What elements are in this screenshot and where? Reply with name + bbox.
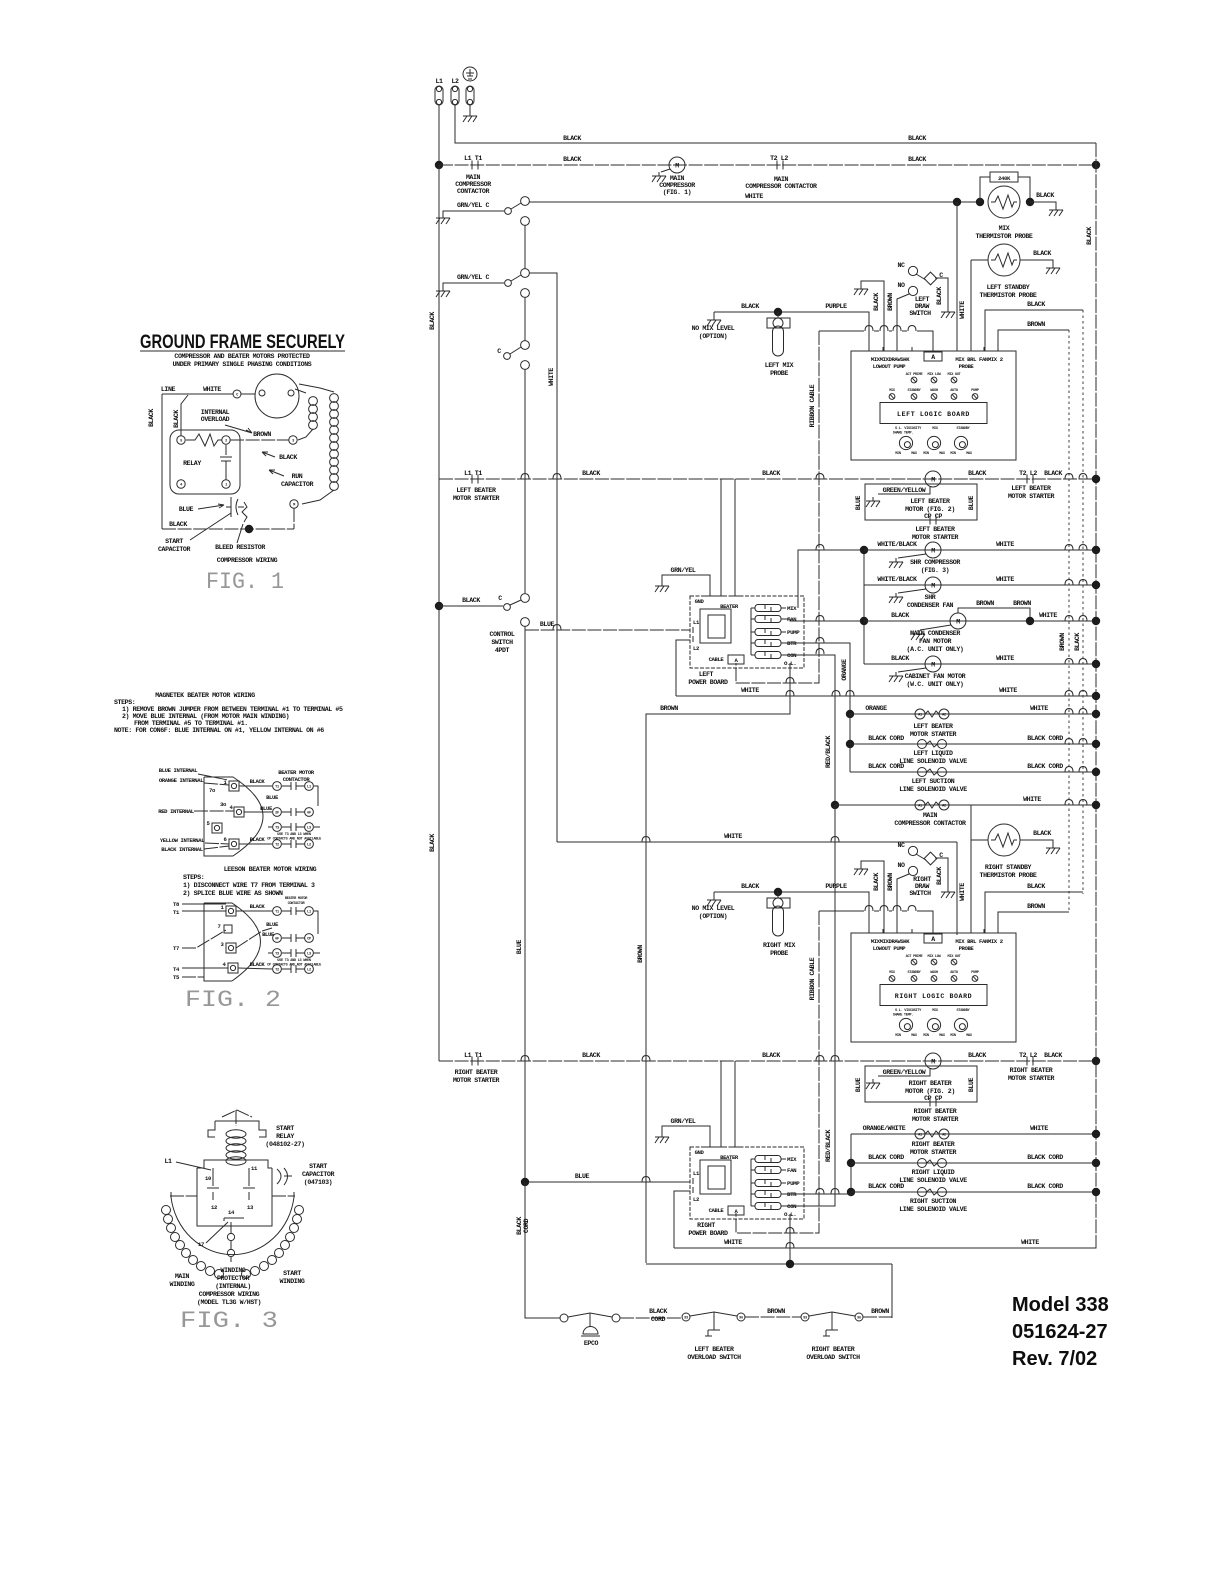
svg-text:BLACK: BLACK <box>762 470 780 477</box>
svg-text:LINE SOLENOID VALVE: LINE SOLENOID VALVE <box>899 786 967 793</box>
fuse CON <box>755 1203 781 1210</box>
contact L1 T1 <box>464 155 482 170</box>
motor main condenser fan row <box>864 600 1096 653</box>
svg-text:M: M <box>293 503 295 507</box>
svg-text:L1: L1 <box>435 78 443 85</box>
svg-text:CAPACITOR: CAPACITOR <box>281 481 313 488</box>
svg-text:BROWN: BROWN <box>871 1308 889 1315</box>
svg-text:BLACK: BLACK <box>762 1052 780 1059</box>
wire black cord vertical <box>849 714 851 772</box>
svg-text:BROWN: BROWN <box>1027 321 1045 328</box>
svg-text:ORANGE: ORANGE <box>841 659 848 681</box>
svg-text:L2: L2 <box>307 968 311 972</box>
svg-text:T5: T5 <box>173 974 180 981</box>
svg-text:1: 1 <box>225 483 227 487</box>
svg-text:BROWN: BROWN <box>1027 903 1045 910</box>
svg-text:LINE SOLENOID VALVE: LINE SOLENOID VALVE <box>899 758 967 765</box>
svg-text:T2: T2 <box>275 968 279 972</box>
svg-text:PROBE: PROBE <box>959 945 975 952</box>
svg-text:USE T3 AND L3 WHEN: USE T3 AND L3 WHEN <box>277 959 311 963</box>
wire blue vertical <box>516 626 525 1182</box>
svg-text:BROWN: BROWN <box>1059 633 1066 651</box>
svg-text:WHITE: WHITE <box>999 687 1017 694</box>
svg-text:CP CONTACTS ARE NOT AVAILABLE: CP CONTACTS ARE NOT AVAILABLE <box>267 964 322 968</box>
wire S up to line <box>173 395 188 436</box>
svg-text:1) DISCONNECT WIRE T7 FROM TE: 1) DISCONNECT WIRE T7 FROM TERMINAL 3 <box>183 882 315 889</box>
svg-text:THERMISTOR PROBE: THERMISTOR PROBE <box>980 872 1037 879</box>
svg-text:WHITE: WHITE <box>996 541 1014 548</box>
wire ribbon cable run <box>819 326 933 352</box>
svg-text:GND: GND <box>695 1149 705 1156</box>
label start capacitor <box>158 513 231 553</box>
svg-text:POWER BOARD: POWER BOARD <box>688 679 728 686</box>
svg-text:GREEN/YELLOW: GREEN/YELLOW <box>883 487 926 494</box>
svg-text:1) REMOVE BROWN JUMPER FROM B: 1) REMOVE BROWN JUMPER FROM BETWEEN TERM… <box>122 706 343 713</box>
wire drops row1061 to right power board beater terminals <box>721 1061 735 1147</box>
fuse MIX <box>755 605 781 612</box>
svg-text:MIN: MIN <box>950 1034 956 1038</box>
svg-text:LEFT LOGIC BOARD: LEFT LOGIC BOARD <box>897 411 970 418</box>
svg-text:BLACK: BLACK <box>908 135 926 142</box>
ground to right logic board black input <box>854 861 884 933</box>
svg-text:10: 10 <box>205 1175 212 1182</box>
svg-text:BLACK: BLACK <box>250 778 266 785</box>
svg-text:CONTACTOR: CONTACTOR <box>457 188 489 195</box>
svg-text:BLACK: BLACK <box>1033 830 1051 837</box>
svg-text:(INTERNAL): (INTERNAL) <box>215 1283 251 1290</box>
svg-text:MIN: MIN <box>923 452 929 456</box>
svg-text:BLACK: BLACK <box>429 312 436 330</box>
wire left beater motor starter row <box>439 470 1096 502</box>
svg-text:FAN: FAN <box>787 1167 797 1174</box>
svg-text:BLACK: BLACK <box>1074 633 1081 651</box>
svg-text:BLACK CORD: BLACK CORD <box>1027 1183 1063 1190</box>
wire epco junction row <box>646 1260 892 1318</box>
svg-text:STEPS:: STEPS: <box>114 699 135 706</box>
svg-text:STANDBY: STANDBY <box>957 1009 971 1013</box>
svg-text:BLACK: BLACK <box>873 293 880 311</box>
motor M main compressor <box>652 157 695 196</box>
wire blue row to right power board <box>525 1173 690 1182</box>
right power board <box>690 1143 804 1219</box>
svg-text:BLUE: BLUE <box>968 495 975 510</box>
svg-text:BLACK: BLACK <box>563 135 581 142</box>
svg-text:WASH: WASH <box>930 971 938 975</box>
svg-text:ORANGE/WHITE: ORANGE/WHITE <box>863 1125 906 1132</box>
svg-text:PROBE: PROBE <box>770 370 788 377</box>
svg-text:BLACK: BLACK <box>582 1052 600 1059</box>
svg-text:LOWOUT PUMP: LOWOUT PUMP <box>873 363 907 370</box>
svg-text:BLACK: BLACK <box>516 1217 523 1235</box>
solenoid right liquid row <box>851 1154 1096 1184</box>
svg-text:(MODEL TL3G W/HST): (MODEL TL3G W/HST) <box>197 1299 261 1306</box>
wire left black vertical <box>148 394 162 529</box>
svg-text:STANDBY: STANDBY <box>908 971 922 975</box>
svg-text:MAIN: MAIN <box>670 175 685 182</box>
label L1 <box>164 1158 211 1170</box>
svg-text:13: 13 <box>247 1204 254 1211</box>
svg-text:L1: L1 <box>693 619 700 626</box>
svg-text:L1: L1 <box>693 1170 700 1177</box>
svg-text:NC: NC <box>897 262 905 269</box>
svg-text:SWITCH: SWITCH <box>491 639 513 646</box>
svg-text:MOTOR STARTER: MOTOR STARTER <box>912 534 959 541</box>
svg-text:96: 96 <box>857 1316 861 1320</box>
svg-text:START: START <box>283 1270 301 1277</box>
svg-text:GRN/YEL: GRN/YEL <box>671 1118 696 1125</box>
wire BTR output to orange vertical <box>786 638 850 715</box>
wire OL right power board down <box>786 1214 794 1264</box>
svg-text:STANDBY: STANDBY <box>957 427 971 431</box>
svg-text:YELLOW INTERNAL: YELLOW INTERNAL <box>160 837 205 844</box>
svg-text:BLACK: BLACK <box>250 836 266 843</box>
svg-text:BLACK: BLACK <box>173 410 180 428</box>
label main compressor contactor right <box>745 176 817 190</box>
svg-text:RED INTERNAL: RED INTERNAL <box>158 808 195 815</box>
svg-text:CAPACITOR: CAPACITOR <box>158 546 190 553</box>
terminal 14 <box>224 1209 244 1221</box>
leeson heading <box>183 866 317 897</box>
svg-text:PUMP: PUMP <box>971 971 979 975</box>
blue splice <box>236 911 318 948</box>
svg-text:BLACK: BLACK <box>1044 1052 1062 1059</box>
svg-text:93: 93 <box>684 1316 688 1320</box>
svg-text:BROWN: BROWN <box>1013 600 1031 607</box>
svg-text:MAIN: MAIN <box>175 1273 190 1280</box>
left standby thermistor probe <box>971 244 1060 299</box>
svg-text:BLACK: BLACK <box>741 303 759 310</box>
svg-text:WHITE: WHITE <box>745 193 763 200</box>
svg-text:FIG. 3: FIG. 3 <box>180 1308 278 1334</box>
svg-text:BLACK: BLACK <box>169 521 187 528</box>
svg-text:WINDING: WINDING <box>280 1278 305 1285</box>
svg-text:BLACK: BLACK <box>1044 470 1062 477</box>
svg-text:WASH: WASH <box>930 389 938 393</box>
svg-text:(A.C. UNIT ONLY): (A.C. UNIT ONLY) <box>907 646 964 653</box>
contact row 4 black <box>239 836 313 848</box>
svg-text:LINE: LINE <box>161 386 176 393</box>
wire bottom black <box>162 521 294 533</box>
blue jumper <box>244 786 318 812</box>
node <box>1092 740 1100 748</box>
no mix level ground <box>692 312 735 340</box>
wire MIX output to SHR compressor row <box>798 550 864 608</box>
svg-text:2) SPLICE BLUE WIRE AS SHOWN: 2) SPLICE BLUE WIRE AS SHOWN <box>183 890 283 897</box>
fuse FAN <box>755 616 781 623</box>
svg-text:SHR: SHR <box>925 594 936 601</box>
wire line input <box>162 393 233 395</box>
terminal 2 <box>222 436 230 444</box>
leeson contact row 1 <box>236 903 313 915</box>
svg-text:GND: GND <box>695 598 705 605</box>
left draw switch <box>897 262 948 317</box>
terminal 3 <box>289 436 297 444</box>
node <box>1092 1188 1100 1196</box>
svg-text:ACT PRIME: ACT PRIME <box>906 955 924 959</box>
svg-text:STEPS:: STEPS: <box>183 874 204 881</box>
svg-text:MIX OUT: MIX OUT <box>948 373 962 377</box>
svg-text:S.L. VISCOSITY: S.L. VISCOSITY <box>895 1009 922 1013</box>
svg-text:MAGNETEK BEATER MOTOR WIRING: MAGNETEK BEATER MOTOR WIRING <box>155 692 255 699</box>
svg-text:A: A <box>931 354 935 361</box>
overload switch right beater <box>801 1312 863 1361</box>
svg-text:MIX BRL FANMIX 2: MIX BRL FANMIX 2 <box>955 356 1003 363</box>
leeson terminals <box>221 904 236 916</box>
svg-text:AUTO: AUTO <box>950 389 959 393</box>
wire white row to right cluster <box>557 833 957 842</box>
svg-text:BLUE: BLUE <box>855 1077 862 1092</box>
svg-text:MIXMIXDRAWSHK: MIXMIXDRAWSHK <box>871 356 910 363</box>
svg-text:BLACK: BLACK <box>936 867 943 885</box>
svg-text:L1: L1 <box>307 785 311 789</box>
svg-text:BLACK CORD: BLACK CORD <box>868 735 904 742</box>
svg-text:MOTOR STARTER: MOTOR STARTER <box>453 495 500 502</box>
svg-text:Rev. 7/02: Rev. 7/02 <box>1012 1348 1097 1370</box>
relay housing <box>197 1160 272 1226</box>
svg-text:MIX: MIX <box>787 1156 797 1163</box>
wire CON output to red/black vertical <box>786 649 835 806</box>
svg-text:6F: 6F <box>307 811 311 815</box>
control switch 4PDT <box>435 594 530 654</box>
svg-text:(W.C. UNIT ONLY): (W.C. UNIT ONLY) <box>907 681 964 688</box>
svg-text:T2 L2: T2 L2 <box>770 155 788 162</box>
svg-text:240K: 240K <box>998 175 1011 182</box>
beater motor contactor tiny <box>285 897 308 906</box>
svg-text:LEFT BEATER: LEFT BEATER <box>915 526 955 533</box>
svg-text:ACT PRIME: ACT PRIME <box>906 373 924 377</box>
leeson contact row 3 <box>267 949 322 968</box>
svg-text:Model 338: Model 338 <box>1012 1294 1109 1316</box>
svg-text:LEFT: LEFT <box>699 671 714 678</box>
ground at right draw switch common <box>941 888 955 898</box>
svg-text:RIGHT BEATER: RIGHT BEATER <box>812 1346 855 1353</box>
svg-text:MOTOR STARTER: MOTOR STARTER <box>1008 493 1055 500</box>
wire white row under right power board <box>674 1239 1096 1248</box>
terminal C <box>233 390 255 398</box>
motor SHR compressor row <box>864 541 1096 574</box>
svg-text:L2: L2 <box>693 645 700 652</box>
svg-text:RELAY: RELAY <box>183 460 201 467</box>
svg-text:RIGHT LIQUID: RIGHT LIQUID <box>912 1169 955 1176</box>
svg-text:FROM TERMINAL #5 TO TERMINAL #: FROM TERMINAL #5 TO TERMINAL #1. <box>134 720 248 727</box>
node <box>860 617 868 625</box>
svg-text:L3: L3 <box>307 826 311 830</box>
wire chain <box>524 369 526 593</box>
svg-text:MIXMIXDRAWSHK: MIXMIXDRAWSHK <box>871 938 910 945</box>
node red/black <box>831 801 839 809</box>
svg-text:RIGHT BEATER: RIGHT BEATER <box>912 1141 955 1148</box>
svg-text:USE T3 AND L3 WHEN: USE T3 AND L3 WHEN <box>277 833 311 837</box>
svg-text:BLUE: BLUE <box>968 1077 975 1092</box>
svg-text:RIGHT: RIGHT <box>697 1222 715 1229</box>
svg-text:MIN: MIN <box>895 1034 901 1038</box>
svg-text:BLACK: BLACK <box>1036 192 1054 199</box>
fuse CON <box>755 652 781 659</box>
svg-text:WHITE: WHITE <box>1030 1125 1048 1132</box>
svg-text:COMPRESSOR AND BEATER MOTORS: COMPRESSOR AND BEATER MOTORS PROTECTED <box>174 353 310 360</box>
fuse MIX <box>755 1156 781 1163</box>
node <box>1092 581 1100 589</box>
wire 2 to 3 brown <box>230 431 289 440</box>
svg-text:NO MIX LEVEL: NO MIX LEVEL <box>692 905 735 912</box>
svg-text:AUTO: AUTO <box>950 971 959 975</box>
svg-text:CONTROL: CONTROL <box>490 631 515 638</box>
node <box>1092 692 1100 700</box>
wire black cord drop <box>516 1182 560 1318</box>
svg-text:SHAKE TEMP.: SHAKE TEMP. <box>893 432 914 436</box>
node <box>1026 198 1034 206</box>
svg-text:CP: CP <box>307 937 311 941</box>
svg-text:OVERLOAD SWITCH: OVERLOAD SWITCH <box>687 1354 741 1361</box>
node <box>1092 1159 1100 1167</box>
wire ribbon cable right <box>736 911 819 1233</box>
svg-text:MOTOR (FIG. 2): MOTOR (FIG. 2) <box>905 506 955 513</box>
contact 3 <box>497 341 529 370</box>
contact plates 13 <box>243 1168 255 1211</box>
svg-text:MIN: MIN <box>923 1034 929 1038</box>
wire CON right power board to red/black <box>786 805 835 1206</box>
svg-text:GRN/YEL C: GRN/YEL C <box>457 274 489 281</box>
contact GRN/YEL 2 <box>436 269 529 298</box>
svg-text:BLACK: BLACK <box>873 873 880 891</box>
svg-text:3o: 3o <box>220 801 227 808</box>
terminal GND <box>463 67 477 105</box>
wire left M-row vertical <box>863 550 865 664</box>
svg-text:WHITE/BLACK: WHITE/BLACK <box>877 576 917 583</box>
svg-text:BLACK: BLACK <box>1086 227 1093 245</box>
svg-text:EPCO: EPCO <box>584 1340 599 1347</box>
svg-text:BLACK: BLACK <box>1033 250 1051 257</box>
svg-text:BLACK: BLACK <box>250 903 266 910</box>
svg-text:PROBE: PROBE <box>959 363 975 370</box>
terminal M <box>290 500 298 529</box>
svg-text:(FIG. 1): (FIG. 1) <box>663 189 691 196</box>
svg-text:T3: T3 <box>275 826 279 830</box>
svg-text:COMPRESSOR: COMPRESSOR <box>659 182 695 189</box>
svg-text:C: C <box>497 348 501 355</box>
svg-text:MOTOR (FIG. 2): MOTOR (FIG. 2) <box>905 1088 955 1095</box>
svg-text:11: 11 <box>251 1165 258 1172</box>
node <box>521 1178 529 1186</box>
svg-text:T8: T8 <box>173 901 180 908</box>
svg-text:(OPTION): (OPTION) <box>699 913 727 920</box>
svg-text:BEATER MOTOR: BEATER MOTOR <box>285 897 308 901</box>
contact chain GRN/YEL 1 <box>436 197 529 226</box>
svg-text:7o: 7o <box>209 787 216 794</box>
start winding coil <box>242 1206 304 1279</box>
svg-text:WHITE/BLACK: WHITE/BLACK <box>877 541 917 548</box>
wire to ground black <box>1030 192 1063 216</box>
node <box>976 198 984 206</box>
svg-text:CABLE: CABLE <box>709 656 725 663</box>
svg-text:SWITCH: SWITCH <box>909 310 931 317</box>
node <box>1092 660 1100 668</box>
svg-text:GREEN/YELLOW: GREEN/YELLOW <box>883 1069 926 1076</box>
svg-text:12: 12 <box>211 1204 218 1211</box>
svg-text:RED/BLACK: RED/BLACK <box>825 736 832 768</box>
svg-text:WHITE: WHITE <box>1030 705 1048 712</box>
label internal overload <box>201 409 252 433</box>
svg-text:MIX: MIX <box>999 225 1010 232</box>
node <box>847 1188 855 1196</box>
node mix probe junction <box>774 308 782 316</box>
svg-text:NO: NO <box>897 862 905 869</box>
svg-text:2: 2 <box>225 439 227 443</box>
wire right standby feed <box>970 805 972 840</box>
svg-text:PUMP: PUMP <box>971 389 979 393</box>
svg-text:LEFT BEATER: LEFT BEATER <box>910 498 950 505</box>
svg-text:NOTE: FOR CON6F: BLUE INTERNA: NOTE: FOR CON6F: BLUE INTERNAL ON #1, YE… <box>114 727 324 734</box>
start relay body <box>208 1110 266 1165</box>
svg-text:2F: 2F <box>275 811 279 815</box>
svg-text:NO MIX LEVEL: NO MIX LEVEL <box>692 325 735 332</box>
svg-text:RIGHT: RIGHT <box>913 876 931 883</box>
wire L2 enclosure white left <box>676 640 690 696</box>
svg-text:LEFT STANDBY: LEFT STANDBY <box>987 284 1030 291</box>
svg-text:BLACK CORD: BLACK CORD <box>1027 735 1063 742</box>
coil main winding fig1 <box>299 384 338 504</box>
svg-text:WHITE: WHITE <box>1021 1239 1039 1246</box>
right logic board <box>851 929 1016 1042</box>
svg-text:BLACK CORD: BLACK CORD <box>1027 763 1063 770</box>
svg-text:START: START <box>276 1125 294 1132</box>
motor cabinet fan row <box>864 655 1096 688</box>
svg-text:SHR COMPRESSOR: SHR COMPRESSOR <box>910 559 960 566</box>
node <box>1092 617 1100 625</box>
wire black jumper to FAN terminal <box>985 883 1083 933</box>
left beater motor box <box>855 484 977 525</box>
svg-text:CORD: CORD <box>523 1218 530 1233</box>
svg-text:MOTOR STARTER: MOTOR STARTER <box>910 1149 957 1156</box>
right mix probe <box>763 892 795 957</box>
coil main compressor contactor row <box>835 796 1096 827</box>
svg-text:RIGHT STANDBY: RIGHT STANDBY <box>985 864 1032 871</box>
svg-text:LEFT: LEFT <box>915 296 930 303</box>
long verticals black/brown right side <box>1074 310 1083 894</box>
node <box>1092 1130 1100 1138</box>
svg-text:MIX: MIX <box>787 605 797 612</box>
svg-text:LEFT BEATER: LEFT BEATER <box>694 1346 734 1353</box>
motor M right beater <box>925 1053 941 1069</box>
svg-text:RIGHT BEATER: RIGHT BEATER <box>914 1108 957 1115</box>
svg-text:MAIN: MAIN <box>466 174 481 181</box>
svg-text:T4: T4 <box>173 966 180 973</box>
svg-text:BLACK: BLACK <box>563 156 581 163</box>
wire standby probe to BRL <box>970 260 972 351</box>
svg-text:WHITE: WHITE <box>203 386 221 393</box>
relay box <box>170 430 240 494</box>
label 17 <box>198 1222 228 1248</box>
svg-text:BLACK: BLACK <box>936 287 943 305</box>
svg-text:L2: L2 <box>693 1196 700 1203</box>
svg-text:L1 T1: L1 T1 <box>464 155 482 162</box>
svg-text:COMPRESSOR CONTACTOR: COMPRESSOR CONTACTOR <box>894 820 966 827</box>
svg-text:BLUE: BLUE <box>855 495 862 510</box>
svg-text:RIGHT BEATER: RIGHT BEATER <box>1010 1067 1053 1074</box>
svg-text:BROWN: BROWN <box>660 705 678 712</box>
wire ribbon cable left <box>736 331 819 683</box>
svg-text:MIX LOW: MIX LOW <box>928 955 942 959</box>
svg-text:BLACK: BLACK <box>582 470 600 477</box>
node mix probe junction <box>774 888 782 896</box>
svg-text:COMPRESSOR: COMPRESSOR <box>455 181 491 188</box>
svg-text:BLACK CORD: BLACK CORD <box>1027 1154 1063 1161</box>
leeson external leads <box>173 901 228 981</box>
coil upper fig1 <box>295 389 317 440</box>
svg-text:BLEED RESISTOR: BLEED RESISTOR <box>215 544 265 551</box>
bleed resistor zigzag <box>242 502 247 522</box>
node row end <box>1092 1057 1100 1065</box>
